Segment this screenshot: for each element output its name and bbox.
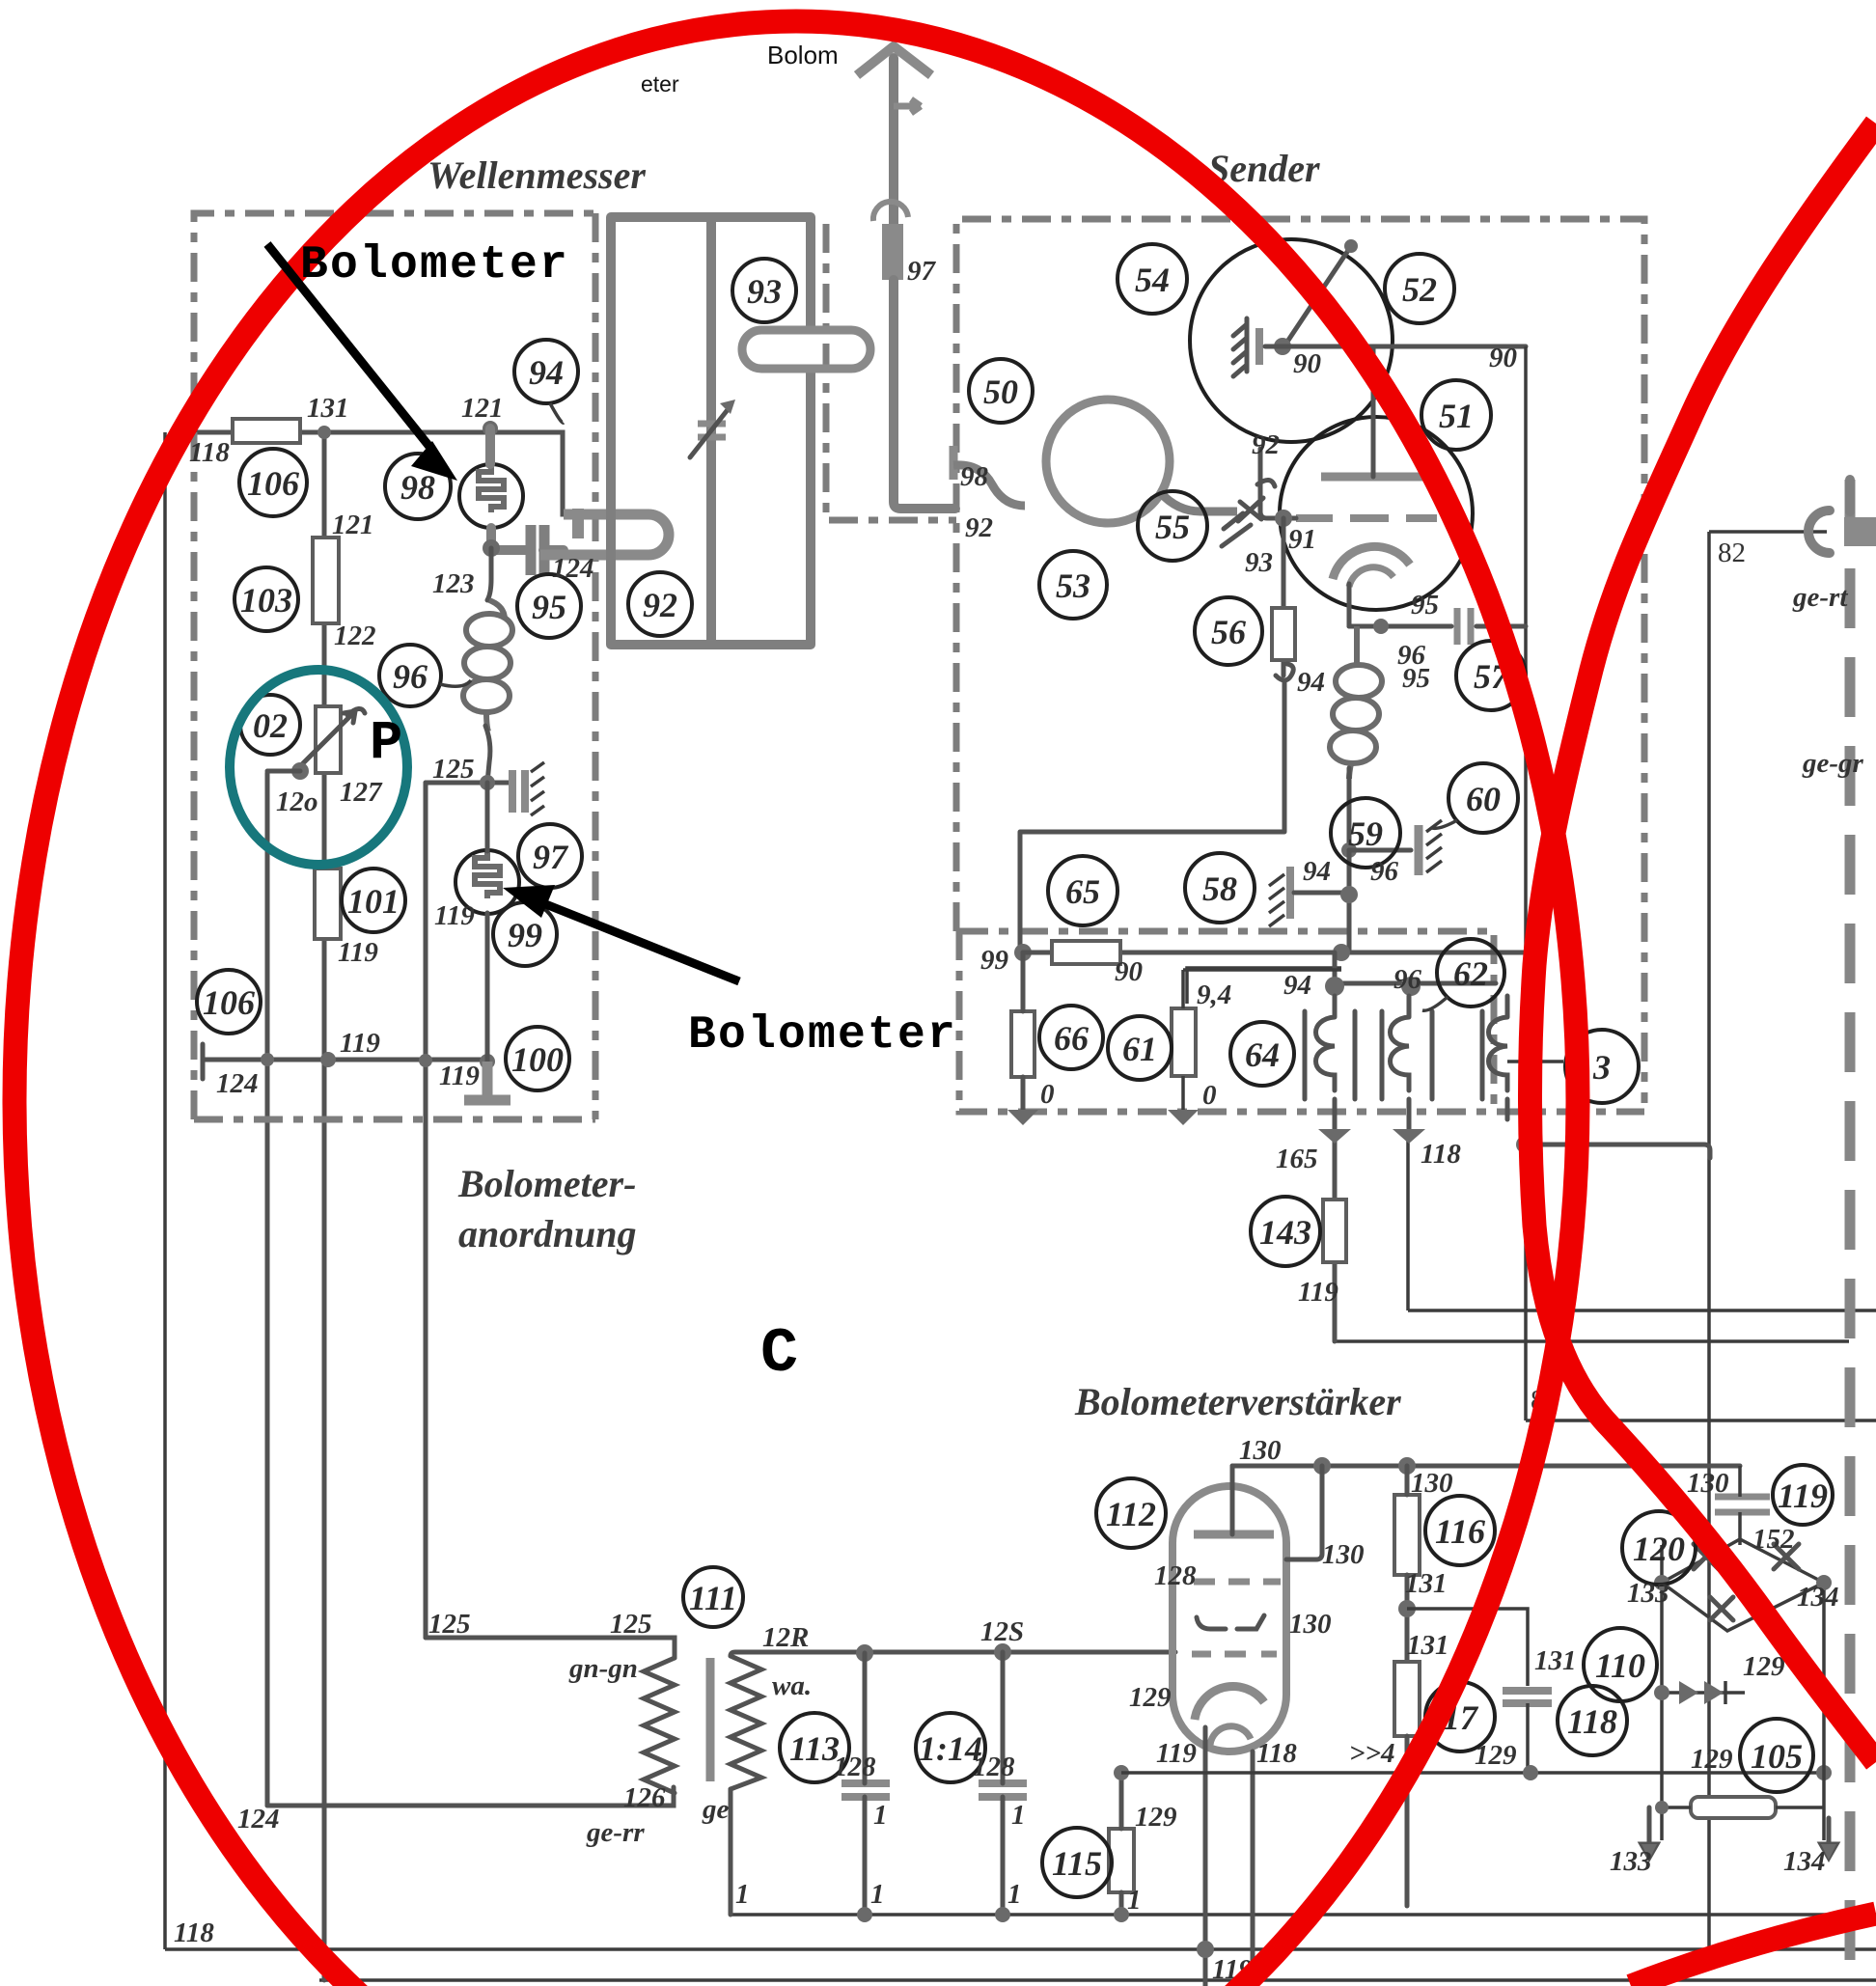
svg-text:98: 98	[960, 461, 989, 492]
node 1586	[1523, 1765, 1538, 1780]
ground under 100	[464, 1062, 510, 1100]
cap 113 leads	[863, 1653, 868, 1915]
svg-text:P: P	[370, 713, 402, 775]
svg-text:165: 165	[1276, 1144, 1318, 1174]
svg-text:12R: 12R	[762, 1622, 809, 1653]
dashed heavy vertical right x=1917	[1845, 480, 1856, 1986]
tube 51 anode lead	[1371, 346, 1376, 477]
wire 125 y=1697	[426, 1638, 675, 1658]
svg-text:118: 118	[1567, 1702, 1617, 1741]
svg-text:0: 0	[1202, 1080, 1217, 1111]
black arrow 2	[543, 903, 739, 981]
wire horizontal y=1100	[203, 1058, 487, 1062]
wire 56 to 58 shield	[1020, 681, 1284, 952]
tube 112 envelope	[1172, 1486, 1286, 1752]
node y1100 d	[480, 1054, 495, 1069]
balloon 105	[1740, 1719, 1813, 1792]
resistor 90 horizontal	[1052, 941, 1120, 964]
transformer 111 primary zigzag	[644, 1658, 675, 1793]
bridge box left vertical	[1660, 1545, 1664, 1840]
stadium connector top right	[1808, 510, 1830, 553]
balloon 58	[1185, 853, 1255, 923]
svg-text:101: 101	[347, 882, 400, 921]
wire resistor row	[1662, 1806, 1824, 1809]
node cap113 bottom	[857, 1907, 872, 1922]
svg-text:121: 121	[332, 510, 374, 540]
wire y=1186	[1525, 1115, 1710, 1158]
balloon 64	[1230, 1022, 1294, 1086]
svg-text:125: 125	[610, 1609, 652, 1640]
svg-text:96: 96	[1393, 964, 1422, 995]
dashed boundary mid x=856	[826, 224, 956, 520]
balloon 119	[1773, 1465, 1833, 1525]
tube 112 second lead	[1251, 1752, 1255, 1986]
svg-text:Wellenmesser: Wellenmesser	[428, 153, 646, 197]
svg-text:131: 131	[1407, 1630, 1449, 1661]
svg-text:121: 121	[461, 393, 504, 424]
wire vertical x=336	[322, 432, 327, 1980]
wire ge-rr y=1871	[267, 1787, 674, 1806]
svg-text:Bolometerverstärker: Bolometerverstärker	[1074, 1380, 1401, 1423]
tube 112 grid hooks	[1197, 1615, 1264, 1629]
balloon 55	[1138, 491, 1207, 561]
svg-text:119: 119	[1298, 1277, 1338, 1308]
variable capacitor 94	[698, 424, 726, 437]
ground arrow 134	[1821, 1818, 1836, 1858]
svg-text:66: 66	[1054, 1019, 1089, 1058]
svg-text:Bolometer: Bolometer	[300, 239, 569, 291]
svg-text:118: 118	[189, 437, 230, 468]
wire secondary bottom	[729, 1789, 733, 1915]
svg-text:96: 96	[393, 657, 428, 696]
svg-text:124: 124	[237, 1804, 280, 1834]
node 99	[1014, 944, 1032, 961]
wire vertical x=441	[424, 783, 428, 1638]
capacitor 118	[1503, 1691, 1552, 1703]
bridge box right vertical	[1822, 1583, 1826, 1840]
svg-text:96: 96	[1397, 640, 1426, 671]
svg-text:wa.: wa.	[772, 1670, 812, 1701]
svg-text:Bolometer-: Bolometer-	[457, 1162, 636, 1205]
stadium 93	[742, 330, 870, 369]
tube 52 top electrode dot	[1344, 239, 1358, 253]
hairpin resonator 92	[540, 514, 669, 555]
shield 58 hatch	[1269, 874, 1284, 926]
balloon 110	[1584, 1628, 1657, 1701]
svg-text:95: 95	[532, 588, 566, 626]
resistor 66	[1011, 1011, 1035, 1077]
resistor 115 leads	[1119, 1773, 1124, 1915]
svg-text:122: 122	[334, 621, 376, 651]
svg-text:120: 120	[1633, 1530, 1685, 1568]
svg-text:129: 129	[1475, 1740, 1517, 1771]
svg-text:92: 92	[643, 586, 677, 624]
svg-text:127: 127	[340, 777, 383, 808]
node can1	[1325, 977, 1344, 996]
bridge x mark 1	[1694, 1544, 1719, 1569]
bridge node right	[1816, 1575, 1832, 1590]
dashed box Wellenmesser	[194, 213, 595, 1119]
tube 112 bottom circle	[1210, 1726, 1251, 1745]
node 90	[1274, 338, 1291, 355]
svg-text:60: 60	[1466, 780, 1501, 818]
svg-text:1: 1	[870, 1879, 885, 1910]
IF can 3	[1482, 996, 1532, 1099]
wire row y=987	[1023, 951, 1526, 955]
svg-text:131: 131	[1534, 1645, 1577, 1676]
bridge x mark 2	[1774, 1544, 1799, 1569]
resistor 117 lower lead	[1405, 1736, 1410, 1906]
svg-text:94: 94	[1283, 970, 1311, 1001]
feedthrough arc	[873, 202, 908, 221]
resistor bottom right	[1691, 1797, 1776, 1818]
svg-text:118: 118	[174, 1917, 214, 1948]
pot 102 wiper arrow	[298, 708, 365, 768]
node 131	[317, 426, 331, 439]
node 1390,987	[1333, 944, 1350, 961]
node y1100 c	[419, 1054, 432, 1067]
svg-text:Bolometer: Bolometer	[688, 1009, 957, 1062]
svg-text:94: 94	[1297, 667, 1325, 698]
node y1100 a	[261, 1053, 274, 1066]
balloon 50	[969, 359, 1033, 423]
balloon 54	[1117, 244, 1187, 314]
tube 52 cathode hatch	[1233, 318, 1247, 376]
tube 51 cathode arc	[1333, 546, 1410, 579]
svg-text:anordnung: anordnung	[458, 1212, 637, 1255]
balloon 56	[1195, 597, 1262, 665]
varcap arrow	[690, 407, 730, 457]
wire x=1381 resistor 143 chain	[1333, 1117, 1338, 1341]
resistor 115	[1109, 1829, 1134, 1892]
svg-text:93: 93	[1245, 547, 1273, 578]
svg-text:134: 134	[1797, 1582, 1839, 1613]
tube 112 cathode arc	[1195, 1686, 1264, 1720]
balloon 93	[732, 259, 796, 322]
svg-text:131: 131	[307, 393, 349, 424]
bus bar top right	[1844, 517, 1876, 546]
transformer core	[706, 1658, 715, 1781]
coil 96	[463, 600, 512, 731]
svg-text:92: 92	[1252, 429, 1280, 460]
svg-text:90: 90	[1293, 348, 1321, 379]
svg-text:97: 97	[533, 838, 569, 876]
tube 51 inner arc	[1349, 567, 1393, 587]
svg-text:99: 99	[508, 916, 542, 954]
arrow head fill 134	[1821, 1844, 1836, 1860]
coil bottom to ground row	[1347, 768, 1352, 850]
balloon 94	[514, 340, 578, 423]
svg-text:65: 65	[1065, 872, 1100, 911]
svg-text:1: 1	[1007, 1879, 1022, 1910]
svg-text:106: 106	[203, 983, 255, 1022]
red arc bottom right	[1631, 1914, 1876, 1986]
balloon 103	[234, 567, 298, 631]
svg-text:ge-rt: ge-rt	[1792, 582, 1848, 613]
svg-text:123: 123	[432, 568, 475, 599]
resistor 101	[315, 869, 341, 939]
svg-text:>>4: >>4	[1349, 1738, 1395, 1769]
wire 123 down to coil	[487, 548, 491, 600]
IF can 2	[1382, 996, 1432, 1099]
red ellipse right arc	[1531, 124, 1876, 1762]
wire 131 to cap118	[1407, 1609, 1528, 1686]
svg-text:12o: 12o	[276, 786, 318, 817]
transformer secondary zigzag	[731, 1656, 761, 1789]
wire 61 leads	[1183, 970, 1341, 1117]
svg-text:119: 119	[434, 900, 475, 931]
arrow head fill 133	[1641, 1844, 1657, 1860]
balloon 113	[780, 1713, 849, 1782]
balloon 111	[683, 1567, 743, 1627]
svg-text:93: 93	[747, 272, 782, 311]
svg-text:129: 129	[1691, 1744, 1733, 1775]
svg-text:gn-gn: gn-gn	[568, 1653, 638, 1684]
wire bottom rail 118	[165, 1947, 1876, 1951]
balloon 57	[1456, 641, 1526, 710]
svg-text:105: 105	[1751, 1737, 1803, 1776]
resistor 116 leads	[1405, 1466, 1410, 1662]
balloon 98	[385, 454, 451, 519]
shield 58 bar	[1286, 867, 1294, 919]
capacitor 124	[531, 525, 544, 575]
svg-text:C: C	[760, 1318, 798, 1390]
svg-text:143: 143	[1259, 1213, 1311, 1252]
balloon 65	[1048, 856, 1117, 925]
thin grid return loop	[1187, 968, 1341, 1004]
wire cap 95 row	[1349, 624, 1526, 629]
tank rectangle 92/93	[611, 217, 811, 645]
svg-text:55: 55	[1155, 508, 1190, 546]
svg-text:0: 0	[1040, 1079, 1055, 1110]
svg-text:1: 1	[735, 1879, 750, 1910]
svg-text:100: 100	[511, 1040, 564, 1079]
node res row left	[1655, 1801, 1669, 1814]
capacitor 113	[841, 1783, 890, 1797]
svg-text:118: 118	[1256, 1738, 1297, 1769]
balloon 117	[1425, 1682, 1495, 1752]
resistor 117	[1394, 1662, 1420, 1736]
balloon 52	[1385, 254, 1454, 323]
ground 60 bar	[1415, 825, 1423, 875]
svg-text:130: 130	[1239, 1435, 1282, 1466]
svg-text:130: 130	[1322, 1539, 1365, 1570]
node dashed bottom left	[1007, 1110, 1038, 1125]
svg-text:130: 130	[1687, 1468, 1729, 1499]
node 131	[1398, 1600, 1416, 1617]
svg-text:53: 53	[1056, 566, 1090, 605]
cap 118 bottom lead	[1526, 1703, 1530, 1773]
balloon 96	[379, 645, 471, 706]
resistor 143	[1323, 1200, 1346, 1262]
node 123	[483, 539, 500, 557]
antenna chevron	[857, 46, 931, 75]
balloon 114	[916, 1713, 985, 1782]
svg-text:119: 119	[340, 1028, 380, 1059]
svg-text:125: 125	[428, 1609, 471, 1640]
cathode lead 51	[1347, 584, 1352, 626]
ground arrow 133	[1641, 1807, 1657, 1858]
loop 50/53	[1046, 400, 1170, 523]
balloon 51	[1421, 380, 1491, 450]
wire cap to hairpin	[543, 545, 564, 555]
tube 51 grid dashes	[1296, 514, 1437, 522]
svg-text:54: 54	[1135, 261, 1170, 299]
svg-text:1: 1	[1011, 1800, 1026, 1831]
wavy link 50	[953, 465, 1025, 506]
diode bar	[1724, 1681, 1727, 1704]
svg-text:64: 64	[1245, 1035, 1280, 1074]
node 115 bottom	[1114, 1907, 1129, 1922]
diode 1	[1679, 1681, 1698, 1704]
antenna down wire	[894, 280, 955, 509]
wire top 130 row	[1232, 1464, 1740, 1469]
T connector at hairpin	[572, 509, 584, 538]
svg-text:110: 110	[1595, 1646, 1645, 1685]
wire anode row y=359	[1265, 345, 1526, 349]
wire vertical x=277	[265, 773, 270, 1806]
svg-text:91: 91	[1288, 524, 1316, 555]
svg-text:51: 51	[1439, 397, 1474, 435]
wire 63 can right	[1507, 1060, 1563, 1063]
svg-text:119: 119	[1156, 1738, 1197, 1769]
svg-text:116: 116	[1435, 1512, 1485, 1551]
wire sub rail y=1984	[731, 1913, 1876, 1917]
svg-text:133: 133	[1610, 1846, 1652, 1877]
svg-text:12S: 12S	[980, 1616, 1024, 1647]
terminal 98 sender	[950, 446, 958, 480]
node 165	[1318, 1129, 1351, 1144]
wire bottom rail 2	[319, 1978, 1876, 1982]
wire thin frame x=1581	[1524, 346, 1528, 952]
svg-text:118: 118	[1421, 1139, 1461, 1170]
svg-text:90: 90	[1489, 343, 1517, 373]
potentiometer 102	[316, 706, 341, 773]
node 125	[480, 775, 495, 790]
wire grid chain down	[1282, 518, 1286, 676]
ground 60 hatch	[1426, 820, 1442, 872]
wire to ground 60	[1349, 848, 1411, 853]
balloon 143	[1251, 1197, 1320, 1266]
black arrow 1	[267, 244, 430, 448]
diode bridge diamond	[1662, 1539, 1824, 1631]
svg-text:Bolom: Bolom	[767, 41, 839, 69]
node 129	[994, 1643, 1011, 1661]
tube 112 anode lead	[1230, 1466, 1235, 1534]
svg-text:129: 129	[1135, 1802, 1177, 1833]
wire x=1459 drop	[1406, 1134, 1410, 1310]
tube 51 envelope	[1280, 417, 1473, 610]
wire x=1398 down to shield row	[1347, 850, 1352, 952]
tube 52 cathode bar	[1255, 328, 1263, 365]
node diode row	[1654, 1685, 1669, 1700]
svg-text:82: 82	[1718, 538, 1746, 568]
resistor 56	[1272, 608, 1295, 660]
node cap95	[1373, 619, 1389, 634]
wire y=1019 can feeds	[1335, 952, 1496, 983]
loop exit	[1160, 492, 1237, 511]
antenna side arrow	[894, 99, 921, 113]
svg-text:56: 56	[1211, 613, 1246, 651]
balloon 106	[239, 449, 307, 516]
svg-text:59: 59	[1348, 814, 1383, 853]
dashed box IF unit	[959, 931, 1644, 1112]
node y1100 b	[320, 1052, 336, 1067]
svg-text:124: 124	[552, 553, 594, 584]
wire y=811 horizontal	[426, 781, 509, 786]
balloon 99	[493, 902, 557, 966]
cap 114 leads	[1001, 1652, 1006, 1915]
svg-text:133: 133	[1627, 1578, 1669, 1609]
wire secondary top row y=1713	[731, 1652, 1175, 1656]
svg-text:ge-rr: ge-rr	[586, 1817, 645, 1848]
node 130 a	[1313, 1457, 1331, 1475]
svg-text:94: 94	[1303, 856, 1331, 887]
wire 130 drop to tube	[1286, 1466, 1322, 1559]
terminal 124	[201, 1044, 206, 1079]
node can2	[1401, 977, 1421, 996]
wire left outer border x=171	[163, 432, 167, 1949]
capacitor 125 to ground	[512, 770, 525, 813]
node 118b	[1393, 1129, 1425, 1144]
wire y=1837 row	[1121, 1771, 1824, 1775]
ground hatch right of cap	[531, 762, 544, 815]
balloon 95	[517, 574, 581, 638]
node 130 b	[1398, 1457, 1416, 1475]
svg-text:61: 61	[1122, 1030, 1157, 1068]
svg-text:119: 119	[338, 937, 378, 968]
balloon 106b	[197, 970, 261, 1034]
svg-text:124: 124	[216, 1068, 259, 1099]
node 1890	[1816, 1765, 1832, 1780]
wire wiper to x=277	[267, 769, 300, 774]
cap 152 lead	[1738, 1466, 1742, 1545]
node dashed bottom mid	[1168, 1110, 1199, 1125]
svg-text:94: 94	[529, 353, 564, 392]
wire 98 top lead	[485, 428, 495, 464]
svg-text:ge: ge	[702, 1794, 730, 1825]
balloon 112	[1096, 1478, 1166, 1548]
svg-text:50: 50	[983, 372, 1018, 411]
node 96	[1341, 842, 1357, 858]
tube 112 grid dashes 2	[1192, 1651, 1277, 1658]
wire 98 bottom lead to cap	[491, 528, 527, 550]
svg-text:1: 1	[873, 1800, 888, 1831]
tube 112 grid dashes 1	[1194, 1579, 1281, 1586]
balloon 60	[1432, 763, 1518, 833]
shield 58 link	[1294, 891, 1345, 896]
svg-text:98: 98	[400, 468, 435, 507]
tube 112 anode	[1194, 1531, 1274, 1539]
svg-text:130: 130	[1411, 1468, 1453, 1499]
svg-text:106: 106	[247, 464, 299, 503]
balloon 118c	[1558, 1686, 1627, 1755]
wire top row y=448	[174, 432, 578, 514]
resistor 118 top-left	[233, 419, 300, 443]
bridge x mark 3	[1710, 1597, 1733, 1620]
bridge node left	[1654, 1575, 1669, 1590]
wire bolometer2 leads	[485, 783, 490, 1062]
svg-text:130: 130	[1289, 1609, 1332, 1640]
balloon 92	[628, 572, 692, 636]
svg-text:95: 95	[1411, 590, 1439, 621]
coil 57	[1330, 626, 1382, 779]
balloon 61	[1108, 1016, 1172, 1080]
node 119 rail	[1197, 1941, 1214, 1958]
svg-text:96: 96	[1370, 856, 1399, 887]
svg-text:131: 131	[1405, 1568, 1448, 1599]
capacitor 152	[1715, 1497, 1770, 1512]
